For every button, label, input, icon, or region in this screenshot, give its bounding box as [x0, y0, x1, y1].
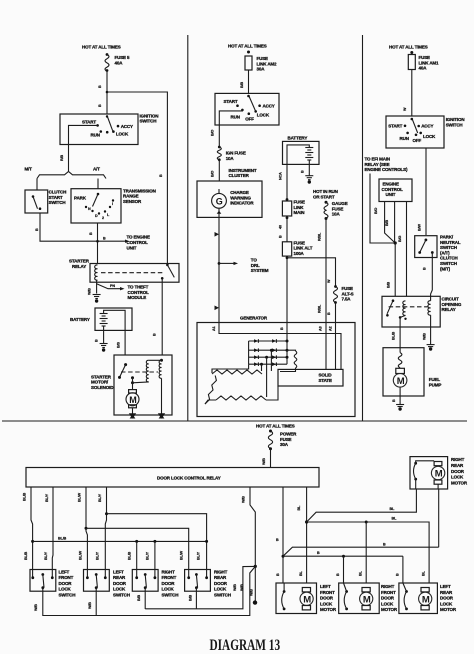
- svg-text:B: B: [35, 228, 39, 231]
- diode bridge: [249, 340, 287, 342]
- wire battery positive to starter: [104, 310, 126, 355]
- svg-text:START: START: [49, 195, 63, 200]
- svg-text:PARK: PARK: [74, 196, 87, 201]
- svg-text:2: 2: [102, 216, 104, 220]
- svg-text:OPENING: OPENING: [442, 302, 462, 307]
- svg-text:BL/B: BL/B: [23, 492, 27, 501]
- svg-text:POWER: POWER: [280, 432, 297, 437]
- svg-text:MAIN: MAIN: [294, 210, 305, 215]
- svg-text:BL/W: BL/W: [78, 492, 82, 502]
- svg-text:LOCK: LOCK: [214, 587, 227, 592]
- svg-text:SWITCH: SWITCH: [440, 261, 457, 266]
- right front door lock motor box: [339, 583, 380, 614]
- svg-text:SWITCH: SWITCH: [113, 592, 130, 597]
- svg-text:CLUTCH: CLUTCH: [49, 190, 67, 195]
- divider left/middle columns: [187, 35, 189, 421]
- svg-text:B: B: [383, 543, 386, 547]
- svg-text:DOOR: DOOR: [451, 469, 465, 474]
- svg-text:START: START: [224, 99, 238, 104]
- svg-text:B: B: [280, 327, 284, 330]
- svg-text:M/T: M/T: [25, 167, 33, 172]
- svg-text:B: B: [396, 573, 400, 576]
- svg-text:LINK: LINK: [294, 205, 305, 210]
- wire power fuse to door lock control relay: [270, 449, 272, 468]
- svg-text:M: M: [397, 376, 405, 387]
- relay switch: [392, 299, 395, 302]
- svg-text:MOTOR: MOTOR: [381, 607, 398, 612]
- svg-text:SWITCH: SWITCH: [49, 200, 66, 205]
- ignition switch (left) box: [60, 114, 138, 145]
- svg-text:CHARGE: CHARGE: [230, 190, 249, 195]
- svg-text:FUEL: FUEL: [429, 377, 441, 382]
- svg-text:REAR: REAR: [214, 575, 227, 580]
- wire ignition to park/neutral switch: [425, 148, 427, 235]
- wire to starter relay contact: [107, 92, 167, 264]
- generator A3 A2 wires: [325, 323, 327, 370]
- ground bus line from front switches: [43, 566, 256, 615]
- starter motor M: [129, 390, 137, 393]
- bus C from right rear motor: [283, 547, 439, 556]
- svg-text:REAR: REAR: [451, 463, 464, 468]
- fuel pump choke: [398, 353, 402, 368]
- svg-text:DOOR LOCK CONTROL RELAY: DOOR LOCK CONTROL RELAY: [157, 476, 221, 481]
- svg-text:RELAY: RELAY: [442, 307, 456, 312]
- svg-text:BL/Y: BL/Y: [197, 551, 201, 560]
- svg-text:B: B: [423, 267, 427, 270]
- svg-text:B/B: B/B: [387, 282, 391, 288]
- svg-text:LEFT: LEFT: [59, 570, 70, 575]
- svg-text:B: B: [336, 573, 340, 576]
- svg-text:PARK/: PARK/: [440, 235, 454, 240]
- wire from START contact down: [69, 125, 98, 171]
- svg-text:SOLENOID: SOLENOID: [91, 385, 114, 390]
- svg-text:B/G: B/G: [398, 236, 402, 242]
- left rear door lock motor box: [399, 583, 438, 614]
- fuel pump motor: [396, 368, 405, 373]
- svg-text:BL/B: BL/B: [392, 331, 396, 340]
- ground (solenoid): [158, 413, 165, 419]
- right front door lock switch: [132, 570, 158, 592]
- svg-text:OR START: OR START: [313, 194, 335, 199]
- bus A to right rear motor: [307, 489, 417, 522]
- svg-text:NEUTRAL: NEUTRAL: [440, 240, 461, 245]
- svg-text:CLUSTER: CLUSTER: [229, 173, 250, 178]
- svg-text:LINK AM1: LINK AM1: [419, 60, 440, 65]
- starter relay coil: [95, 265, 98, 280]
- wire RUN contact down to IGN fuse: [219, 110, 242, 147]
- branch to fuse ALT-S: [287, 258, 336, 287]
- left front door lock switch: [30, 570, 56, 592]
- wire fuse link AM1 to ignition switch: [411, 70, 413, 117]
- wire relay coil to ground: [430, 315, 432, 345]
- svg-text:W/B: W/B: [88, 602, 92, 609]
- svg-text:I: I: [112, 202, 113, 206]
- svg-text:B: B: [327, 312, 331, 315]
- svg-text:B: B: [89, 232, 93, 235]
- svg-text:B: B: [317, 551, 320, 555]
- svg-text:CONTROL: CONTROL: [128, 290, 150, 295]
- svg-text:MODULE: MODULE: [128, 295, 147, 300]
- svg-text:MOTOR: MOTOR: [451, 481, 468, 486]
- stator windings: [212, 370, 262, 374]
- svg-text:B: B: [103, 237, 106, 241]
- svg-text:B/O: B/O: [374, 208, 378, 214]
- svg-text:FUSE: FUSE: [294, 200, 306, 205]
- svg-text:FUSE: FUSE: [280, 437, 292, 442]
- svg-text:A1: A1: [212, 326, 216, 331]
- solid state regulator box: [278, 369, 343, 386]
- svg-text:10A: 10A: [332, 212, 341, 217]
- wire junction to circuit opening relay: [394, 243, 396, 296]
- svg-text:G: G: [216, 196, 223, 206]
- svg-text:LOCK: LOCK: [257, 113, 270, 118]
- wire park/neutral to relay coil: [431, 253, 433, 301]
- svg-text:CONTROL: CONTROL: [127, 240, 149, 245]
- starter relay dashed link: [101, 272, 164, 274]
- svg-text:BL/Y: BL/Y: [98, 493, 102, 502]
- wire clutch switch to junction: [40, 213, 125, 241]
- generator B wire into bridge: [286, 323, 288, 365]
- svg-text:B: B: [392, 399, 396, 402]
- svg-text:B/O: B/O: [211, 171, 215, 177]
- svg-text:BL/W: BL/W: [180, 550, 184, 560]
- ground (circuit opening relay): [427, 344, 435, 346]
- svg-text:BATTERY: BATTERY: [70, 317, 90, 322]
- svg-text:INDICATOR: INDICATOR: [230, 201, 254, 206]
- svg-text:NCA: NCA: [279, 172, 283, 180]
- svg-text:TO EFI MAIN: TO EFI MAIN: [365, 157, 391, 162]
- svg-text:40: 40: [279, 225, 283, 229]
- svg-text:DOOR: DOOR: [381, 596, 395, 601]
- wire relay to fuel pump: [399, 317, 401, 352]
- wire gauge fuse to generator A3: [325, 219, 327, 323]
- node to DRL system: [218, 262, 221, 265]
- power fuse 30A: [269, 430, 272, 433]
- svg-text:SWITCH: SWITCH: [446, 122, 463, 127]
- door lock control relay box: [26, 468, 319, 488]
- svg-text:RUN: RUN: [91, 133, 100, 138]
- svg-text:W/B: W/B: [250, 589, 254, 596]
- park/neutral switch box: [415, 236, 437, 258]
- svg-text:WARNING: WARNING: [230, 195, 251, 200]
- svg-text:B: B: [153, 333, 157, 336]
- fuse 5 40A (wavy symbol): [106, 53, 109, 56]
- svg-text:INSTRUMENT: INSTRUMENT: [229, 168, 257, 173]
- svg-text:B: B: [276, 538, 279, 542]
- svg-text:TO: TO: [251, 258, 258, 263]
- gauge fuse 10A: [325, 201, 328, 204]
- svg-text:HOT IN RUN: HOT IN RUN: [313, 189, 338, 194]
- svg-text:LOCK: LOCK: [59, 587, 72, 592]
- svg-text:LOCK: LOCK: [381, 601, 394, 606]
- svg-text:REAR: REAR: [440, 590, 453, 595]
- svg-text:D: D: [95, 214, 98, 218]
- ECU output wires: [385, 202, 396, 244]
- svg-text:M: M: [422, 594, 430, 605]
- svg-text:A2: A2: [329, 326, 333, 331]
- svg-text:LOCK: LOCK: [116, 131, 129, 136]
- svg-text:IGN FUSE: IGN FUSE: [226, 151, 246, 156]
- wire battery negative to ground: [308, 160, 310, 176]
- svg-text:R/BL: R/BL: [317, 232, 321, 241]
- svg-text:SOLID: SOLID: [319, 373, 333, 378]
- svg-text:B: B: [159, 174, 163, 177]
- svg-text:ENGINE: ENGINE: [383, 182, 400, 187]
- svg-text:M: M: [303, 594, 311, 605]
- svg-text:B/B: B/B: [240, 82, 244, 88]
- svg-text:B: B: [98, 85, 102, 88]
- bus D lock side: [283, 555, 403, 557]
- clutch start switch box: [25, 190, 48, 213]
- svg-text:A3: A3: [319, 326, 323, 331]
- svg-text:BL/Y: BL/Y: [45, 493, 49, 502]
- svg-text:OFF: OFF: [413, 138, 422, 143]
- fuel pump box: [383, 348, 424, 396]
- circuit opening relay box: [382, 296, 440, 327]
- svg-text:HOT AT ALL TIMES: HOT AT ALL TIMES: [82, 45, 121, 50]
- svg-text:B/B: B/B: [189, 595, 193, 601]
- svg-text:TO ENGINE: TO ENGINE: [127, 235, 150, 240]
- svg-text:MOTOR/: MOTOR/: [91, 380, 109, 385]
- svg-text:30A: 30A: [280, 442, 289, 447]
- svg-text:RELAY: RELAY: [72, 264, 86, 269]
- svg-text:B: B: [95, 339, 99, 342]
- charge warning indicator: [212, 193, 227, 208]
- svg-text:TRANSMISSION: TRANSMISSION: [123, 188, 156, 193]
- wire fuse ALT-S to generator A2: [335, 303, 337, 323]
- fuse link AM1 40A: [410, 51, 413, 54]
- svg-text:FUSE: FUSE: [419, 55, 431, 60]
- svg-text:10A: 10A: [226, 156, 235, 161]
- svg-text:LOCK: LOCK: [423, 134, 436, 139]
- svg-text:BL/W: BL/W: [79, 550, 83, 560]
- wire battery to fuse link main: [287, 145, 309, 201]
- starter relay contacts: [166, 264, 169, 267]
- wire to transmission range sensor: [97, 179, 99, 189]
- svg-text:DIAGRAM 13: DIAGRAM 13: [210, 636, 281, 653]
- svg-text:BL/B: BL/B: [128, 551, 132, 560]
- relay output wire A1 to motors: [282, 487, 284, 583]
- svg-text:SWITCH: SWITCH: [214, 592, 231, 597]
- right rear motor right wire: [438, 489, 440, 547]
- svg-text:CLUTCH: CLUTCH: [440, 256, 458, 261]
- svg-text:RELAY (SEE: RELAY (SEE: [365, 162, 390, 167]
- right rear door lock motor box: [410, 457, 448, 489]
- bus line 2 to right rear switch left: [85, 527, 88, 530]
- relay W/B wire down to knot: [250, 487, 255, 566]
- relay output wire BL/W: [86, 487, 87, 578]
- svg-text:(A/T): (A/T): [440, 250, 450, 255]
- svg-text:FUSE: FUSE: [294, 240, 306, 245]
- svg-text:MOTOR: MOTOR: [320, 607, 337, 612]
- svg-text:M: M: [129, 395, 137, 405]
- solenoid contact switch: [124, 363, 127, 366]
- svg-text:FRONT: FRONT: [320, 590, 335, 595]
- generator internal A1 bus: [219, 323, 341, 370]
- svg-text:LINK AM2: LINK AM2: [257, 61, 278, 66]
- rotor field coil: [287, 349, 296, 352]
- svg-text:SYSTEM: SYSTEM: [251, 268, 269, 273]
- fuse link AM2 30A: [247, 51, 250, 54]
- relay output wire BL/Y: [51, 487, 54, 578]
- wire relay to starter solenoid: [161, 278, 163, 355]
- svg-text:SWITCH: SWITCH: [59, 592, 76, 597]
- svg-text:W/B: W/B: [240, 584, 244, 591]
- ground bus line from rear switches: [145, 566, 255, 608]
- ground (battery left): [100, 343, 108, 345]
- IGN fuse 10A: [218, 146, 221, 149]
- svg-text:HOT AT ALL TIMES: HOT AT ALL TIMES: [228, 44, 267, 49]
- svg-text:LINK ALT: LINK ALT: [294, 246, 313, 251]
- svg-text:DRL: DRL: [251, 263, 260, 268]
- svg-text:RIGHT: RIGHT: [451, 457, 465, 462]
- svg-text:BL/B: BL/B: [58, 537, 67, 541]
- svg-text:DOOR: DOOR: [162, 581, 176, 586]
- svg-text:LOCK: LOCK: [440, 601, 453, 606]
- svg-text:RIGHT: RIGHT: [162, 570, 176, 575]
- svg-text:DOOR: DOOR: [320, 596, 334, 601]
- svg-text:100A: 100A: [294, 251, 305, 256]
- svg-text:ENGINE CONTROLS): ENGINE CONTROLS): [365, 167, 409, 172]
- svg-text:7.5A: 7.5A: [342, 297, 352, 302]
- svg-text:DOOR: DOOR: [113, 581, 127, 586]
- right rear door lock switch: [185, 570, 211, 592]
- svg-text:30A: 30A: [257, 67, 266, 72]
- svg-text:LEFT: LEFT: [320, 584, 331, 589]
- svg-text:BL/Y: BL/Y: [96, 551, 100, 560]
- svg-text:FUSE: FUSE: [257, 56, 269, 61]
- svg-text:W/B: W/B: [34, 604, 38, 611]
- svg-text:GAUGE: GAUGE: [332, 201, 348, 206]
- ground (starter motor): [129, 413, 136, 419]
- svg-text:IGNITION: IGNITION: [446, 117, 465, 122]
- divider middle/right columns: [362, 35, 364, 421]
- wire fuse link ALT to generator B: [286, 256, 288, 322]
- svg-text:B/B: B/B: [137, 595, 141, 601]
- horizontal separator under top section: [2, 420, 467, 422]
- svg-text:RANGE: RANGE: [123, 194, 139, 199]
- svg-text:LEFT: LEFT: [440, 584, 451, 589]
- relay output wire BL/B: [31, 487, 33, 578]
- svg-text:B/W: B/W: [418, 224, 422, 231]
- svg-text:W/B: W/B: [423, 333, 427, 340]
- svg-text:START: START: [82, 120, 96, 125]
- svg-text:FRONT: FRONT: [162, 575, 177, 580]
- svg-text:FUSE 5: FUSE 5: [115, 55, 131, 60]
- svg-text:START: START: [388, 124, 402, 129]
- svg-text:B: B: [98, 104, 102, 107]
- svg-text:ACCY: ACCY: [421, 124, 433, 129]
- wire IGN fuse to instrument cluster: [218, 160, 220, 181]
- ground (starter relay coil): [93, 294, 101, 296]
- svg-text:B: B: [279, 235, 283, 238]
- svg-text:B/S: B/S: [117, 342, 121, 348]
- fuse link main: [286, 198, 289, 201]
- ground (middle battery): [305, 175, 313, 177]
- svg-text:B/O: B/O: [211, 130, 215, 136]
- svg-text:SENSOR: SENSOR: [123, 199, 142, 204]
- wire to right front switch right: [153, 540, 156, 543]
- svg-text:R/BL: R/BL: [317, 304, 321, 313]
- svg-text:PUMP: PUMP: [429, 382, 442, 387]
- wire battery negative to ground: [103, 326, 105, 344]
- wire fuse to ignition switch: [106, 71, 108, 114]
- svg-text:ACCY: ACCY: [121, 124, 133, 129]
- engine control unit box: [379, 179, 412, 202]
- svg-text:DOOR: DOOR: [440, 596, 454, 601]
- solenoid pull-in coils: [160, 359, 163, 362]
- svg-text:FUSE: FUSE: [332, 206, 344, 211]
- svg-text:OFF: OFF: [245, 117, 254, 122]
- wire to right front switch left: [135, 540, 138, 543]
- fuse ALT-S 7.5A: [334, 285, 337, 288]
- svg-text:STARTER: STARTER: [91, 374, 112, 379]
- svg-text:SWITCH: SWITCH: [140, 119, 157, 124]
- wire relay coil to ground / theft module branch: [96, 280, 98, 293]
- svg-text:BL/Y: BL/Y: [44, 551, 48, 560]
- svg-text:RIGHT: RIGHT: [381, 584, 395, 589]
- svg-text:M: M: [363, 594, 371, 605]
- svg-text:UNIT: UNIT: [127, 245, 137, 250]
- wire between fuse links: [286, 216, 288, 242]
- relay output wire A2: [306, 487, 308, 583]
- svg-text:UNIT: UNIT: [386, 192, 396, 197]
- wire cluster to generator A1: [218, 217, 220, 322]
- wire to clutch start switch: [36, 179, 38, 191]
- svg-text:PN: PN: [110, 284, 115, 288]
- svg-text:40A: 40A: [419, 66, 428, 71]
- svg-text:W/B: W/B: [262, 458, 266, 465]
- svg-text:HOT AT ALL TIMES: HOT AT ALL TIMES: [256, 424, 295, 429]
- svg-text:LOCK: LOCK: [320, 601, 333, 606]
- ignition switch (middle) box: [215, 93, 279, 125]
- wire EFI relay to junction: [370, 174, 395, 244]
- svg-text:N: N: [88, 207, 91, 211]
- svg-text:MOTOR: MOTOR: [440, 607, 457, 612]
- svg-text:R/B: R/B: [60, 155, 64, 161]
- svg-text:W/B: W/B: [242, 496, 246, 503]
- svg-text:SWITCH: SWITCH: [162, 592, 179, 597]
- svg-text:ACCY: ACCY: [263, 104, 275, 109]
- fuse link ALT 100A: [282, 242, 291, 256]
- svg-text:BATTERY: BATTERY: [288, 136, 308, 141]
- svg-text:LEFT: LEFT: [113, 570, 124, 575]
- svg-text:M: M: [435, 469, 443, 480]
- node junction: [394, 241, 397, 244]
- relay sense coil: [403, 301, 406, 315]
- svg-text:TO THEFT: TO THEFT: [128, 285, 149, 290]
- svg-text:STATE: STATE: [319, 378, 332, 383]
- svg-text:FRONT: FRONT: [381, 590, 396, 595]
- relay main coil: [428, 301, 431, 315]
- svg-text:HOT AT ALL TIMES: HOT AT ALL TIMES: [389, 45, 428, 50]
- svg-text:40A: 40A: [115, 61, 124, 66]
- svg-text:FUSE: FUSE: [342, 286, 354, 291]
- svg-text:FRONT: FRONT: [59, 575, 74, 580]
- svg-text:CIRCUIT: CIRCUIT: [442, 297, 460, 302]
- svg-text:SWITCH: SWITCH: [440, 245, 457, 250]
- svg-text:W/B: W/B: [233, 584, 237, 591]
- svg-text:GENERATOR: GENERATOR: [240, 316, 268, 321]
- svg-text:REAR: REAR: [113, 575, 126, 580]
- svg-text:LOCK: LOCK: [451, 475, 464, 480]
- svg-text:B/B: B/B: [385, 220, 389, 226]
- node junction to starter relay feed: [106, 91, 109, 94]
- svg-text:LOCK: LOCK: [113, 587, 126, 592]
- svg-text:BL/B: BL/B: [24, 551, 28, 560]
- svg-text:STARTER: STARTER: [69, 259, 90, 264]
- svg-text:W/B: W/B: [88, 288, 92, 295]
